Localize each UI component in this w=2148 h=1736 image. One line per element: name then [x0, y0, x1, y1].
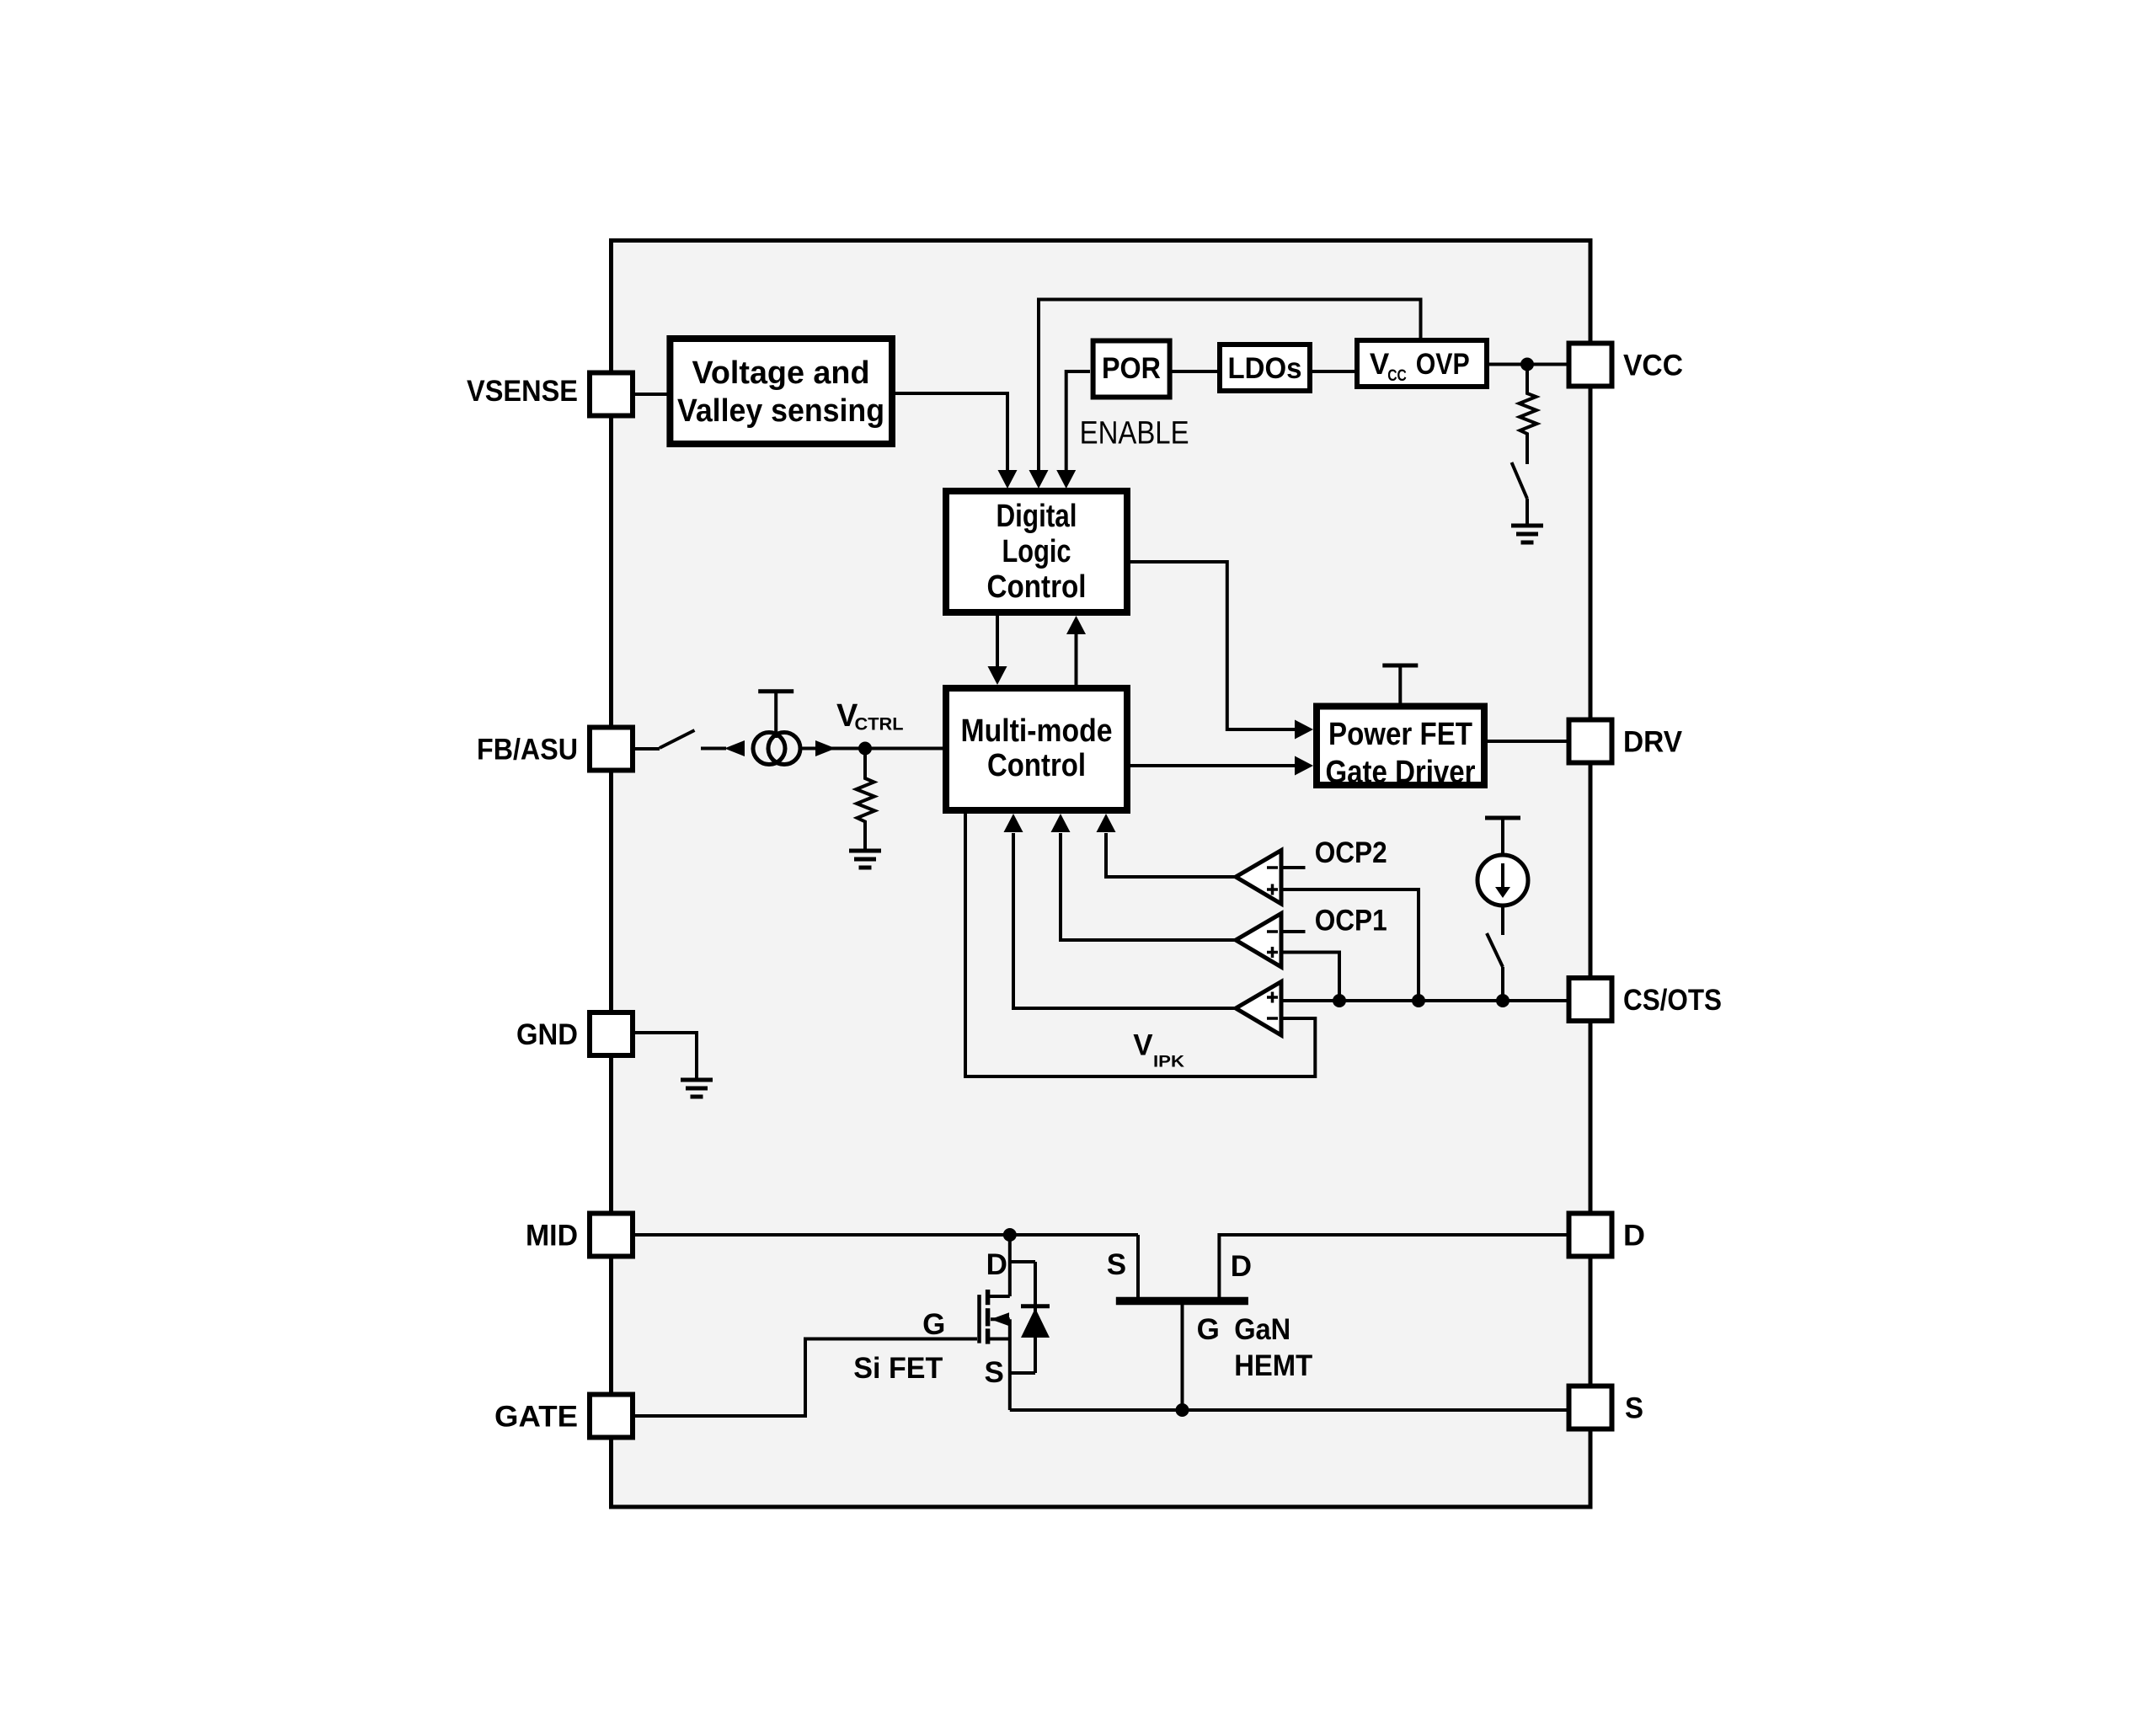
svg-text:VCC: VCC — [1623, 350, 1683, 382]
svg-text:GND: GND — [516, 1018, 578, 1051]
block Multi-mode Control — [946, 688, 1127, 810]
svg-text:LDOs: LDOs — [1228, 352, 1302, 385]
Si FET body diode — [1010, 1260, 1035, 1263]
wire Vcc OVP to VCC pin — [1488, 363, 1568, 366]
wire Vcc OVP to Digital Logic Control — [1039, 300, 1421, 472]
svg-text:Si FET: Si FET — [853, 1352, 943, 1385]
svg-text:CTRL: CTRL — [855, 715, 904, 734]
svg-text:CC: CC — [1387, 367, 1407, 385]
ground below VCC switch — [1511, 524, 1543, 528]
svg-text:Gate Driver: Gate Driver — [1326, 755, 1476, 790]
ground below VCTRL resistor — [849, 849, 881, 853]
switch to ground on VCC node — [1512, 462, 1528, 499]
svg-text:Control: Control — [987, 748, 1086, 783]
Si FET symbol — [1008, 1235, 1012, 1296]
node VCC junction — [1520, 358, 1534, 371]
pin CS/OTS — [1569, 978, 1612, 1021]
comparator VIPK — [1236, 982, 1281, 1036]
wire Voltage block to Digital Logic Control — [895, 393, 1007, 471]
wire OCP2 output to Multi-mode Control — [1106, 833, 1236, 877]
svg-text:S: S — [1107, 1248, 1126, 1281]
pin DRV — [1569, 720, 1612, 763]
comparator OCP1 — [1236, 914, 1281, 968]
wire Digital Logic Control to Multi-mode Control (down) — [996, 616, 999, 667]
svg-text:OCP1: OCP1 — [1315, 905, 1387, 937]
svg-text:D: D — [986, 1248, 1007, 1281]
wire GATE pin to Si FET gate — [635, 1339, 977, 1417]
GaN HEMT gate lead — [1181, 1305, 1184, 1410]
svg-text:FB/ASU: FB/ASU — [477, 734, 578, 767]
wire VIPK comparator output to Multi-mode Control — [1013, 833, 1236, 1008]
svg-text:G: G — [922, 1308, 945, 1341]
wire source bus to S pin — [1010, 1408, 1568, 1412]
svg-text:Digital: Digital — [997, 499, 1077, 534]
svg-text:G: G — [1197, 1313, 1220, 1346]
IC boundary box — [612, 241, 1591, 1508]
block Vcc OVP — [1357, 340, 1487, 387]
svg-text:OCP2: OCP2 — [1315, 836, 1387, 869]
supply bar above FB current source — [758, 689, 793, 693]
wire FB/ASU pin to switch — [635, 747, 660, 750]
block Voltage and Valley sensing — [670, 339, 892, 444]
node current source junction — [1496, 994, 1509, 1007]
pin MID — [590, 1214, 633, 1257]
resistor on VCTRL node — [857, 749, 875, 851]
svg-text:D: D — [1231, 1250, 1252, 1283]
arrow left on FB wire — [724, 740, 745, 756]
wire OCP1 output to Multi-mode Control — [1061, 833, 1236, 940]
svg-text:MID: MID — [526, 1220, 578, 1253]
current source on CS/OTS — [1477, 855, 1528, 905]
comparator OCP2 — [1236, 851, 1281, 905]
wire Power FET Gate Driver to DRV pin — [1488, 740, 1568, 743]
wire Multi-mode Control to Power FET Gate Driver — [1130, 764, 1296, 767]
wire Digital Logic Control to Power FET Gate Driver — [1130, 562, 1296, 729]
wire Multi-mode Control to Digital Logic Control (up) — [1075, 633, 1078, 685]
wire D pin to GaN drain — [1219, 1235, 1568, 1298]
pin GATE — [590, 1395, 633, 1438]
svg-text:VSENSE: VSENSE — [467, 375, 578, 408]
svg-text:POR: POR — [1102, 352, 1161, 385]
GaN HEMT channel bar — [1116, 1297, 1248, 1306]
svg-text:ENABLE: ENABLE — [1080, 415, 1189, 451]
ground symbol GND pin — [681, 1078, 713, 1082]
resistor on VCC node — [1520, 365, 1537, 465]
wire VIPK feedback path — [965, 814, 1315, 1076]
svg-text:GaN: GaN — [1234, 1313, 1290, 1346]
svg-text:HEMT: HEMT — [1234, 1349, 1312, 1382]
wire POR to LDOs — [1172, 370, 1217, 373]
pin VSENSE — [590, 373, 633, 416]
wire CS current source to switch — [1501, 905, 1504, 935]
svg-text:Voltage and: Voltage and — [692, 355, 870, 391]
pin VCC — [1569, 344, 1612, 387]
pin GND — [590, 1012, 633, 1055]
arrow right on VCTRL wire — [815, 740, 836, 756]
node Si FET drain junction — [1003, 1228, 1017, 1242]
wire LDOs to Vcc OVP — [1312, 370, 1356, 373]
wire OCP1 minus stub — [1281, 930, 1306, 933]
switch on FB/ASU — [660, 730, 695, 748]
supply bar above CS current source — [1485, 816, 1520, 820]
svg-text:Control: Control — [987, 569, 1087, 605]
svg-text:Logic: Logic — [1002, 534, 1071, 569]
pin S — [1569, 1386, 1612, 1429]
pin D — [1569, 1214, 1612, 1257]
wire GaN source lead — [1136, 1235, 1140, 1298]
svg-text:Power FET: Power FET — [1328, 717, 1472, 752]
svg-text:S: S — [985, 1356, 1004, 1389]
switch on CS/OTS — [1487, 933, 1503, 967]
pin FB/ASU — [590, 728, 633, 771]
svg-text:S: S — [1625, 1392, 1643, 1425]
svg-text:OVP: OVP — [1416, 348, 1470, 381]
svg-text:Multi-mode: Multi-mode — [961, 713, 1113, 749]
wire VSENSE pin to Voltage block — [635, 393, 667, 396]
node OCP1 plus junction — [1333, 994, 1346, 1007]
wire GND pin to ground — [635, 1033, 697, 1079]
svg-text:Valley sensing: Valley sensing — [677, 393, 884, 429]
block POR — [1093, 341, 1170, 398]
wire OCP1 plus to CS bus — [1281, 953, 1339, 1002]
block Digital Logic Control — [946, 491, 1127, 612]
wire OCP2 plus to CS bus — [1281, 889, 1419, 1001]
supply bar above Power FET Gate Driver — [1382, 664, 1418, 668]
wire ENABLE POR to Digital Logic Control — [1066, 371, 1090, 471]
svg-text:IPK: IPK — [1153, 1053, 1184, 1071]
wire switch to current source — [701, 747, 726, 750]
block Power FET Gate Driver — [1317, 707, 1484, 786]
current source circles FB — [753, 733, 785, 765]
node VCTRL junction — [858, 742, 872, 756]
block LDOs — [1220, 345, 1310, 391]
node GaN gate / source junction — [1176, 1403, 1189, 1417]
svg-text:GATE: GATE — [494, 1401, 578, 1434]
wire MID pin to FET drains — [635, 1233, 1138, 1237]
wire CS/OTS bus — [1281, 999, 1568, 1002]
svg-text:D: D — [1623, 1220, 1645, 1253]
wire current source to VCTRL node and Multi-mode Control — [802, 747, 943, 750]
svg-text:CS/OTS: CS/OTS — [1623, 984, 1722, 1017]
svg-text:V: V — [1133, 1029, 1153, 1062]
node OCP2 plus junction — [1412, 994, 1425, 1007]
svg-text:DRV: DRV — [1623, 726, 1683, 759]
wire OCP2 minus stub — [1281, 866, 1306, 869]
